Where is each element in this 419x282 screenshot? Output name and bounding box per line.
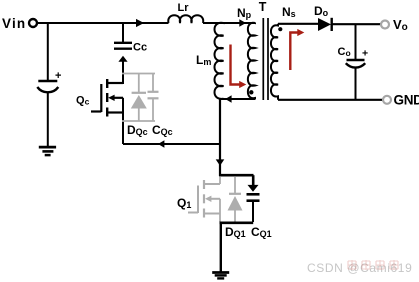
wire clamp return (Qc source to switch node) <box>123 143 220 145</box>
svg-text:+: + <box>362 48 368 60</box>
ground (input) <box>39 147 56 155</box>
wire diode to Vo <box>332 23 381 25</box>
diode Do <box>318 18 332 31</box>
transistor Q1 (gray) <box>188 177 220 222</box>
terminal Vo <box>381 21 389 29</box>
ground (Q1 source) <box>212 273 229 279</box>
arrow right on top rail <box>136 19 144 27</box>
arrow up (clamp current) <box>118 56 127 62</box>
svg-text:GND: GND <box>394 93 419 108</box>
wire top rail from Vin to Np <box>38 22 256 24</box>
svg-text:+: + <box>55 70 61 82</box>
wire Q1 source to ground <box>220 223 222 272</box>
phase dot Np <box>249 90 253 94</box>
red arrow primary current <box>231 45 247 89</box>
capacitor CQc (gray) <box>148 74 159 122</box>
svg-text:T: T <box>259 0 267 14</box>
svg-text:Vin: Vin <box>2 16 26 31</box>
phase dot Ns <box>278 27 282 31</box>
wire secondary bottom to GND <box>278 99 383 101</box>
wire Q1 drain rail <box>219 174 254 177</box>
svg-text:Qc: Qc <box>76 95 90 107</box>
arrow left on clamp return <box>158 140 164 148</box>
wire Cc branch <box>122 22 124 42</box>
arrow right top rail (into Np) <box>239 19 246 27</box>
svg-text:Lr: Lr <box>178 2 190 14</box>
svg-text:Co: Co <box>338 46 351 58</box>
wire switch node vertical <box>219 99 221 177</box>
capacitor Cin (input electrolytic) <box>37 70 61 147</box>
arrow down on switch node <box>216 159 225 165</box>
arrow down on CQ1 branch <box>248 185 259 192</box>
wire primary bottom <box>219 98 256 100</box>
capacitor CQ1 <box>247 194 260 222</box>
wire Q1 bottom rail <box>220 222 254 225</box>
winding Np <box>248 23 255 100</box>
arrow left on primary bottom <box>225 95 231 103</box>
capacitor Cc <box>114 43 132 49</box>
svg-text:Cc: Cc <box>133 42 147 54</box>
wire input cap branch <box>47 22 49 81</box>
svg-text:CSDN @Cami619: CSDN @Cami619 <box>307 261 412 275</box>
wire Cc to Qc drain <box>122 61 124 85</box>
red arrow secondary current <box>290 29 304 70</box>
transformer core T <box>263 18 268 100</box>
diode DQc (gray body diode of Qc) <box>122 74 155 122</box>
inductor Lr <box>168 15 203 23</box>
winding Ns <box>271 24 278 100</box>
capacitor Co <box>346 60 365 100</box>
inductor Lm (magnetizing, winding) <box>215 23 224 99</box>
diode DQ1 (gray body diode of Q1) <box>229 177 241 222</box>
terminal GND <box>383 96 391 104</box>
terminal Vin <box>29 19 37 27</box>
transistor Qc <box>91 79 123 144</box>
wire Co branch <box>355 24 357 60</box>
wire secondary top <box>278 23 318 25</box>
